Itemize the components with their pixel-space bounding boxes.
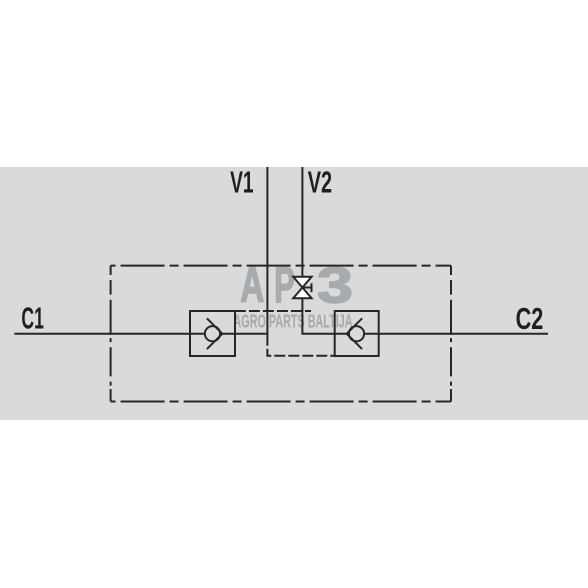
wire left check valve to node V1 [221,333,268,335]
wire right check valve to C2 [364,333,548,335]
restrictor valve on V2: lower triangle [293,288,311,299]
right check valve ball [349,326,364,341]
left check valve ball [205,326,220,341]
gray watermark band [0,167,588,420]
svg-text:V2: V2 [308,165,332,200]
svg-text:V1: V1 [230,165,254,200]
right check valve box [335,311,379,356]
svg-text:C1: C1 [21,301,44,336]
outer valve-body dashed box: bottom edge [111,401,451,403]
pilot line (dashed) from V1 to right check valve [267,335,334,356]
right check valve seat [347,318,362,349]
outer valve-body dashed box: top edge [111,265,451,267]
wire C1 to left check valve [14,333,205,335]
wire V1 vertical line [266,167,268,335]
left check valve seat [207,318,222,349]
pilot line (dashed) from V2 to left check valve [235,310,311,312]
outer valve-body dashed box: right edge [450,266,452,402]
wire V2 vertical line (above restrictor) [301,167,303,278]
svg-text:C2: C2 [516,301,544,336]
left check valve box [190,311,235,356]
restrictor valve on V2: upper triangle [293,277,311,288]
restrictor adjustment tick [302,287,311,289]
outer valve-body dashed box: left edge [110,266,112,402]
wire V2 corner to right check valve [302,298,348,334]
